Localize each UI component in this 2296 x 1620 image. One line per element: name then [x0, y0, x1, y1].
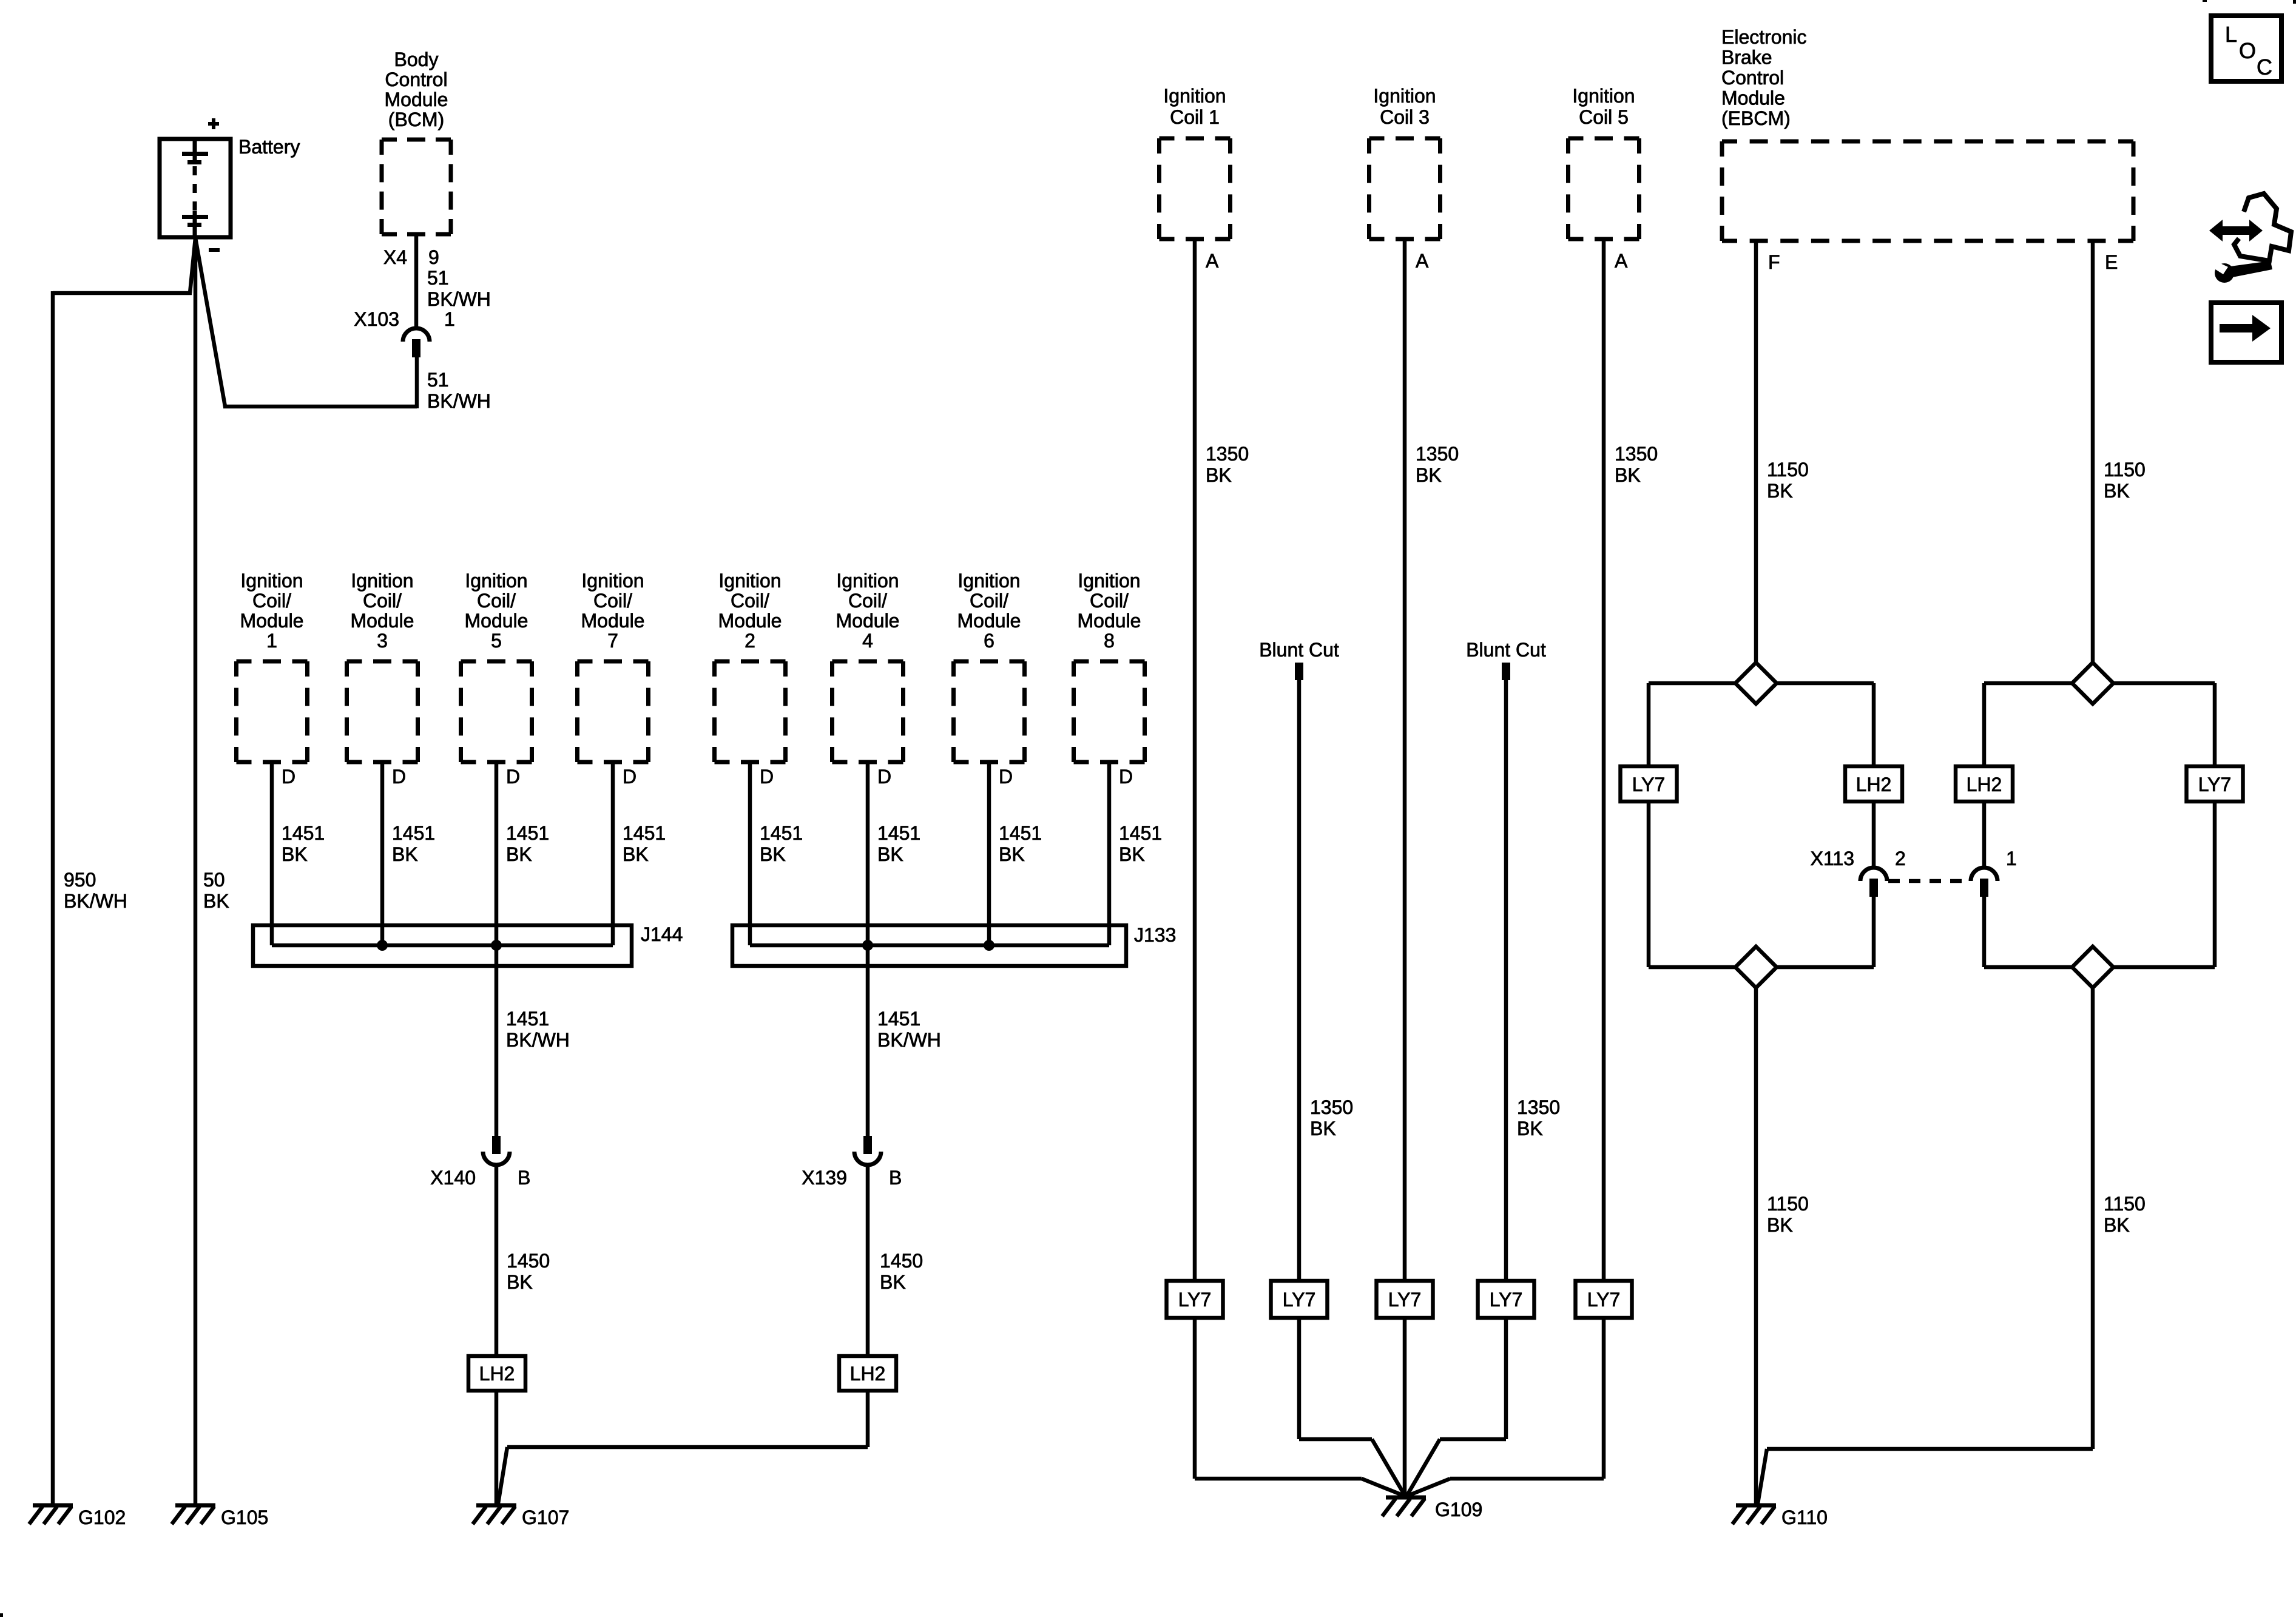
svg-text:1150: 1150: [1767, 459, 1809, 481]
svg-text:1451: 1451: [506, 1008, 549, 1030]
svg-text:Coil/: Coil/: [477, 590, 516, 612]
svg-text:BK: BK: [880, 1271, 906, 1293]
svg-text:1451: 1451: [623, 822, 666, 844]
svg-text:X4: X4: [383, 246, 407, 268]
svg-text:BK: BK: [1767, 1214, 1793, 1236]
svg-text:1451: 1451: [877, 822, 920, 844]
svg-text:1350: 1350: [1416, 443, 1459, 465]
svg-text:Ignition: Ignition: [240, 570, 303, 592]
svg-text:950: 950: [64, 869, 96, 891]
svg-text:Coil 1: Coil 1: [1170, 106, 1220, 128]
svg-text:LY7: LY7: [1632, 774, 1666, 795]
svg-text:BK/WH: BK/WH: [427, 390, 491, 412]
svg-text:J144: J144: [641, 923, 683, 945]
svg-text:Control: Control: [385, 69, 447, 90]
svg-text:1451: 1451: [282, 822, 325, 844]
svg-text:Ignition: Ignition: [351, 570, 413, 592]
svg-text:Module: Module: [718, 610, 782, 632]
svg-text:BK: BK: [203, 890, 229, 912]
svg-text:Ignition: Ignition: [1373, 85, 1436, 107]
svg-text:Battery: Battery: [238, 136, 300, 158]
svg-text:G109: G109: [1435, 1499, 1482, 1520]
svg-text:1: 1: [266, 630, 277, 652]
svg-text:BK: BK: [1416, 464, 1442, 486]
svg-text:BK: BK: [1206, 464, 1232, 486]
svg-text:1451: 1451: [392, 822, 435, 844]
svg-text:Coil/: Coil/: [252, 590, 291, 612]
svg-text:Control: Control: [1721, 67, 1784, 89]
svg-text:E: E: [2105, 251, 2118, 273]
svg-text:D: D: [1119, 766, 1133, 788]
svg-text:J133: J133: [1134, 924, 1176, 946]
svg-text:BK/WH: BK/WH: [877, 1029, 941, 1051]
svg-text:6: 6: [984, 630, 994, 652]
svg-text:1451: 1451: [877, 1008, 920, 1030]
svg-text:BK: BK: [877, 843, 903, 865]
svg-text:LH2: LH2: [479, 1363, 515, 1385]
svg-text:BK: BK: [1119, 843, 1145, 865]
svg-text:LH2: LH2: [1967, 774, 2002, 795]
svg-text:Blunt Cut: Blunt Cut: [1259, 639, 1339, 661]
svg-text:Module: Module: [581, 610, 645, 632]
svg-text:(BCM): (BCM): [388, 109, 444, 130]
svg-text:D: D: [392, 766, 406, 788]
svg-text:Coil/: Coil/: [848, 590, 887, 612]
svg-text:2: 2: [1895, 848, 1906, 869]
svg-text:D: D: [506, 766, 520, 788]
svg-text:Electronic: Electronic: [1721, 26, 1807, 48]
svg-text:LY7: LY7: [1490, 1289, 1523, 1311]
svg-text:Ignition: Ignition: [581, 570, 644, 592]
svg-text:D: D: [623, 766, 636, 788]
svg-text:BK: BK: [760, 843, 786, 865]
svg-text:BK: BK: [1767, 480, 1793, 502]
svg-text:Module: Module: [465, 610, 528, 632]
svg-text:Module: Module: [351, 610, 414, 632]
svg-text:Ignition: Ignition: [465, 570, 527, 592]
svg-text:4: 4: [862, 630, 873, 652]
svg-text:Ignition: Ignition: [718, 570, 781, 592]
svg-text:O: O: [2239, 38, 2256, 63]
svg-text:1150: 1150: [2104, 1193, 2146, 1215]
svg-text:Coil 5: Coil 5: [1579, 106, 1629, 128]
svg-text:B: B: [889, 1167, 902, 1189]
svg-text:Blunt Cut: Blunt Cut: [1466, 639, 1546, 661]
svg-text:1451: 1451: [1119, 822, 1162, 844]
svg-text:LY7: LY7: [1178, 1289, 1212, 1311]
svg-text:BK: BK: [507, 1271, 533, 1293]
svg-text:X103: X103: [354, 308, 399, 330]
svg-text:Coil/: Coil/: [593, 590, 632, 612]
svg-text:Ignition: Ignition: [957, 570, 1020, 592]
svg-text:BK: BK: [1517, 1118, 1543, 1139]
svg-text:Coil/: Coil/: [731, 590, 769, 612]
svg-text:LY7: LY7: [1587, 1289, 1621, 1311]
svg-text:9: 9: [428, 246, 439, 268]
svg-text:LH2: LH2: [1856, 774, 1892, 795]
svg-text:LY7: LY7: [1283, 1289, 1316, 1311]
svg-text:G110: G110: [1781, 1507, 1828, 1528]
svg-text:1450: 1450: [507, 1250, 550, 1272]
svg-text:BK: BK: [2104, 480, 2130, 502]
svg-text:Ignition: Ignition: [1078, 570, 1140, 592]
svg-text:A: A: [1416, 250, 1429, 272]
svg-text:1350: 1350: [1206, 443, 1249, 465]
svg-text:Module: Module: [836, 610, 900, 632]
svg-text:1451: 1451: [999, 822, 1042, 844]
svg-text:7: 7: [607, 630, 618, 652]
svg-text:L: L: [2225, 22, 2237, 47]
svg-text:BK: BK: [2104, 1214, 2130, 1236]
svg-text:50: 50: [203, 869, 225, 891]
svg-text:BK: BK: [506, 843, 532, 865]
svg-text:D: D: [999, 766, 1013, 788]
svg-text:1350: 1350: [1615, 443, 1658, 465]
svg-text:1350: 1350: [1517, 1096, 1560, 1118]
svg-text:5: 5: [491, 630, 502, 652]
svg-text:LH2: LH2: [850, 1363, 886, 1385]
svg-text:BK/WH: BK/WH: [506, 1029, 570, 1051]
svg-text:A: A: [1206, 250, 1219, 272]
svg-text:1350: 1350: [1310, 1096, 1353, 1118]
svg-text:Module: Module: [240, 610, 304, 632]
svg-text:BK: BK: [392, 843, 418, 865]
svg-text:BK/WH: BK/WH: [427, 288, 491, 310]
svg-text:Coil/: Coil/: [970, 590, 1008, 612]
svg-text:Ignition: Ignition: [836, 570, 899, 592]
svg-text:Ignition: Ignition: [1163, 85, 1226, 107]
svg-text:F: F: [1768, 251, 1780, 273]
svg-text:Brake: Brake: [1721, 47, 1772, 69]
svg-text:1: 1: [2006, 848, 2017, 869]
svg-text:1150: 1150: [2104, 459, 2146, 481]
svg-text:3: 3: [377, 630, 388, 652]
svg-text:Module: Module: [1078, 610, 1141, 632]
svg-text:BK: BK: [999, 843, 1025, 865]
svg-text:Module: Module: [957, 610, 1021, 632]
svg-text:Body: Body: [394, 49, 439, 70]
svg-text:Coil/: Coil/: [1090, 590, 1129, 612]
svg-text:G102: G102: [78, 1507, 126, 1528]
svg-text:B: B: [518, 1167, 530, 1189]
svg-text:1: 1: [444, 308, 455, 330]
svg-text:D: D: [877, 766, 891, 788]
svg-text:1450: 1450: [880, 1250, 923, 1272]
svg-text:Ignition: Ignition: [1572, 85, 1635, 107]
svg-text:2: 2: [745, 630, 755, 652]
svg-text:A: A: [1615, 250, 1628, 272]
svg-text:X113: X113: [1811, 848, 1854, 869]
svg-text:51: 51: [427, 369, 449, 391]
svg-text:BK/WH: BK/WH: [64, 890, 127, 912]
svg-text:Coil 3: Coil 3: [1380, 106, 1430, 128]
svg-text:G107: G107: [522, 1507, 569, 1528]
svg-text:1150: 1150: [1767, 1193, 1809, 1215]
svg-text:LY7: LY7: [2198, 774, 2232, 795]
svg-text:BK: BK: [623, 843, 649, 865]
svg-text:1451: 1451: [506, 822, 549, 844]
svg-text:Module: Module: [1721, 87, 1785, 109]
svg-text:D: D: [760, 766, 774, 788]
svg-text:X140: X140: [430, 1167, 476, 1189]
svg-text:D: D: [282, 766, 295, 788]
svg-text:1451: 1451: [760, 822, 803, 844]
svg-text:Module: Module: [385, 89, 448, 110]
svg-text:X139: X139: [802, 1167, 847, 1189]
svg-text:(EBCM): (EBCM): [1721, 107, 1791, 129]
svg-text:BK: BK: [282, 843, 308, 865]
svg-text:LY7: LY7: [1388, 1289, 1422, 1311]
svg-text:C: C: [2257, 55, 2272, 79]
svg-text:BK: BK: [1310, 1118, 1336, 1139]
svg-text:BK: BK: [1615, 464, 1641, 486]
svg-text:8: 8: [1104, 630, 1115, 652]
svg-text:Coil/: Coil/: [363, 590, 402, 612]
svg-text:51: 51: [427, 267, 449, 289]
svg-text:G105: G105: [221, 1507, 268, 1528]
